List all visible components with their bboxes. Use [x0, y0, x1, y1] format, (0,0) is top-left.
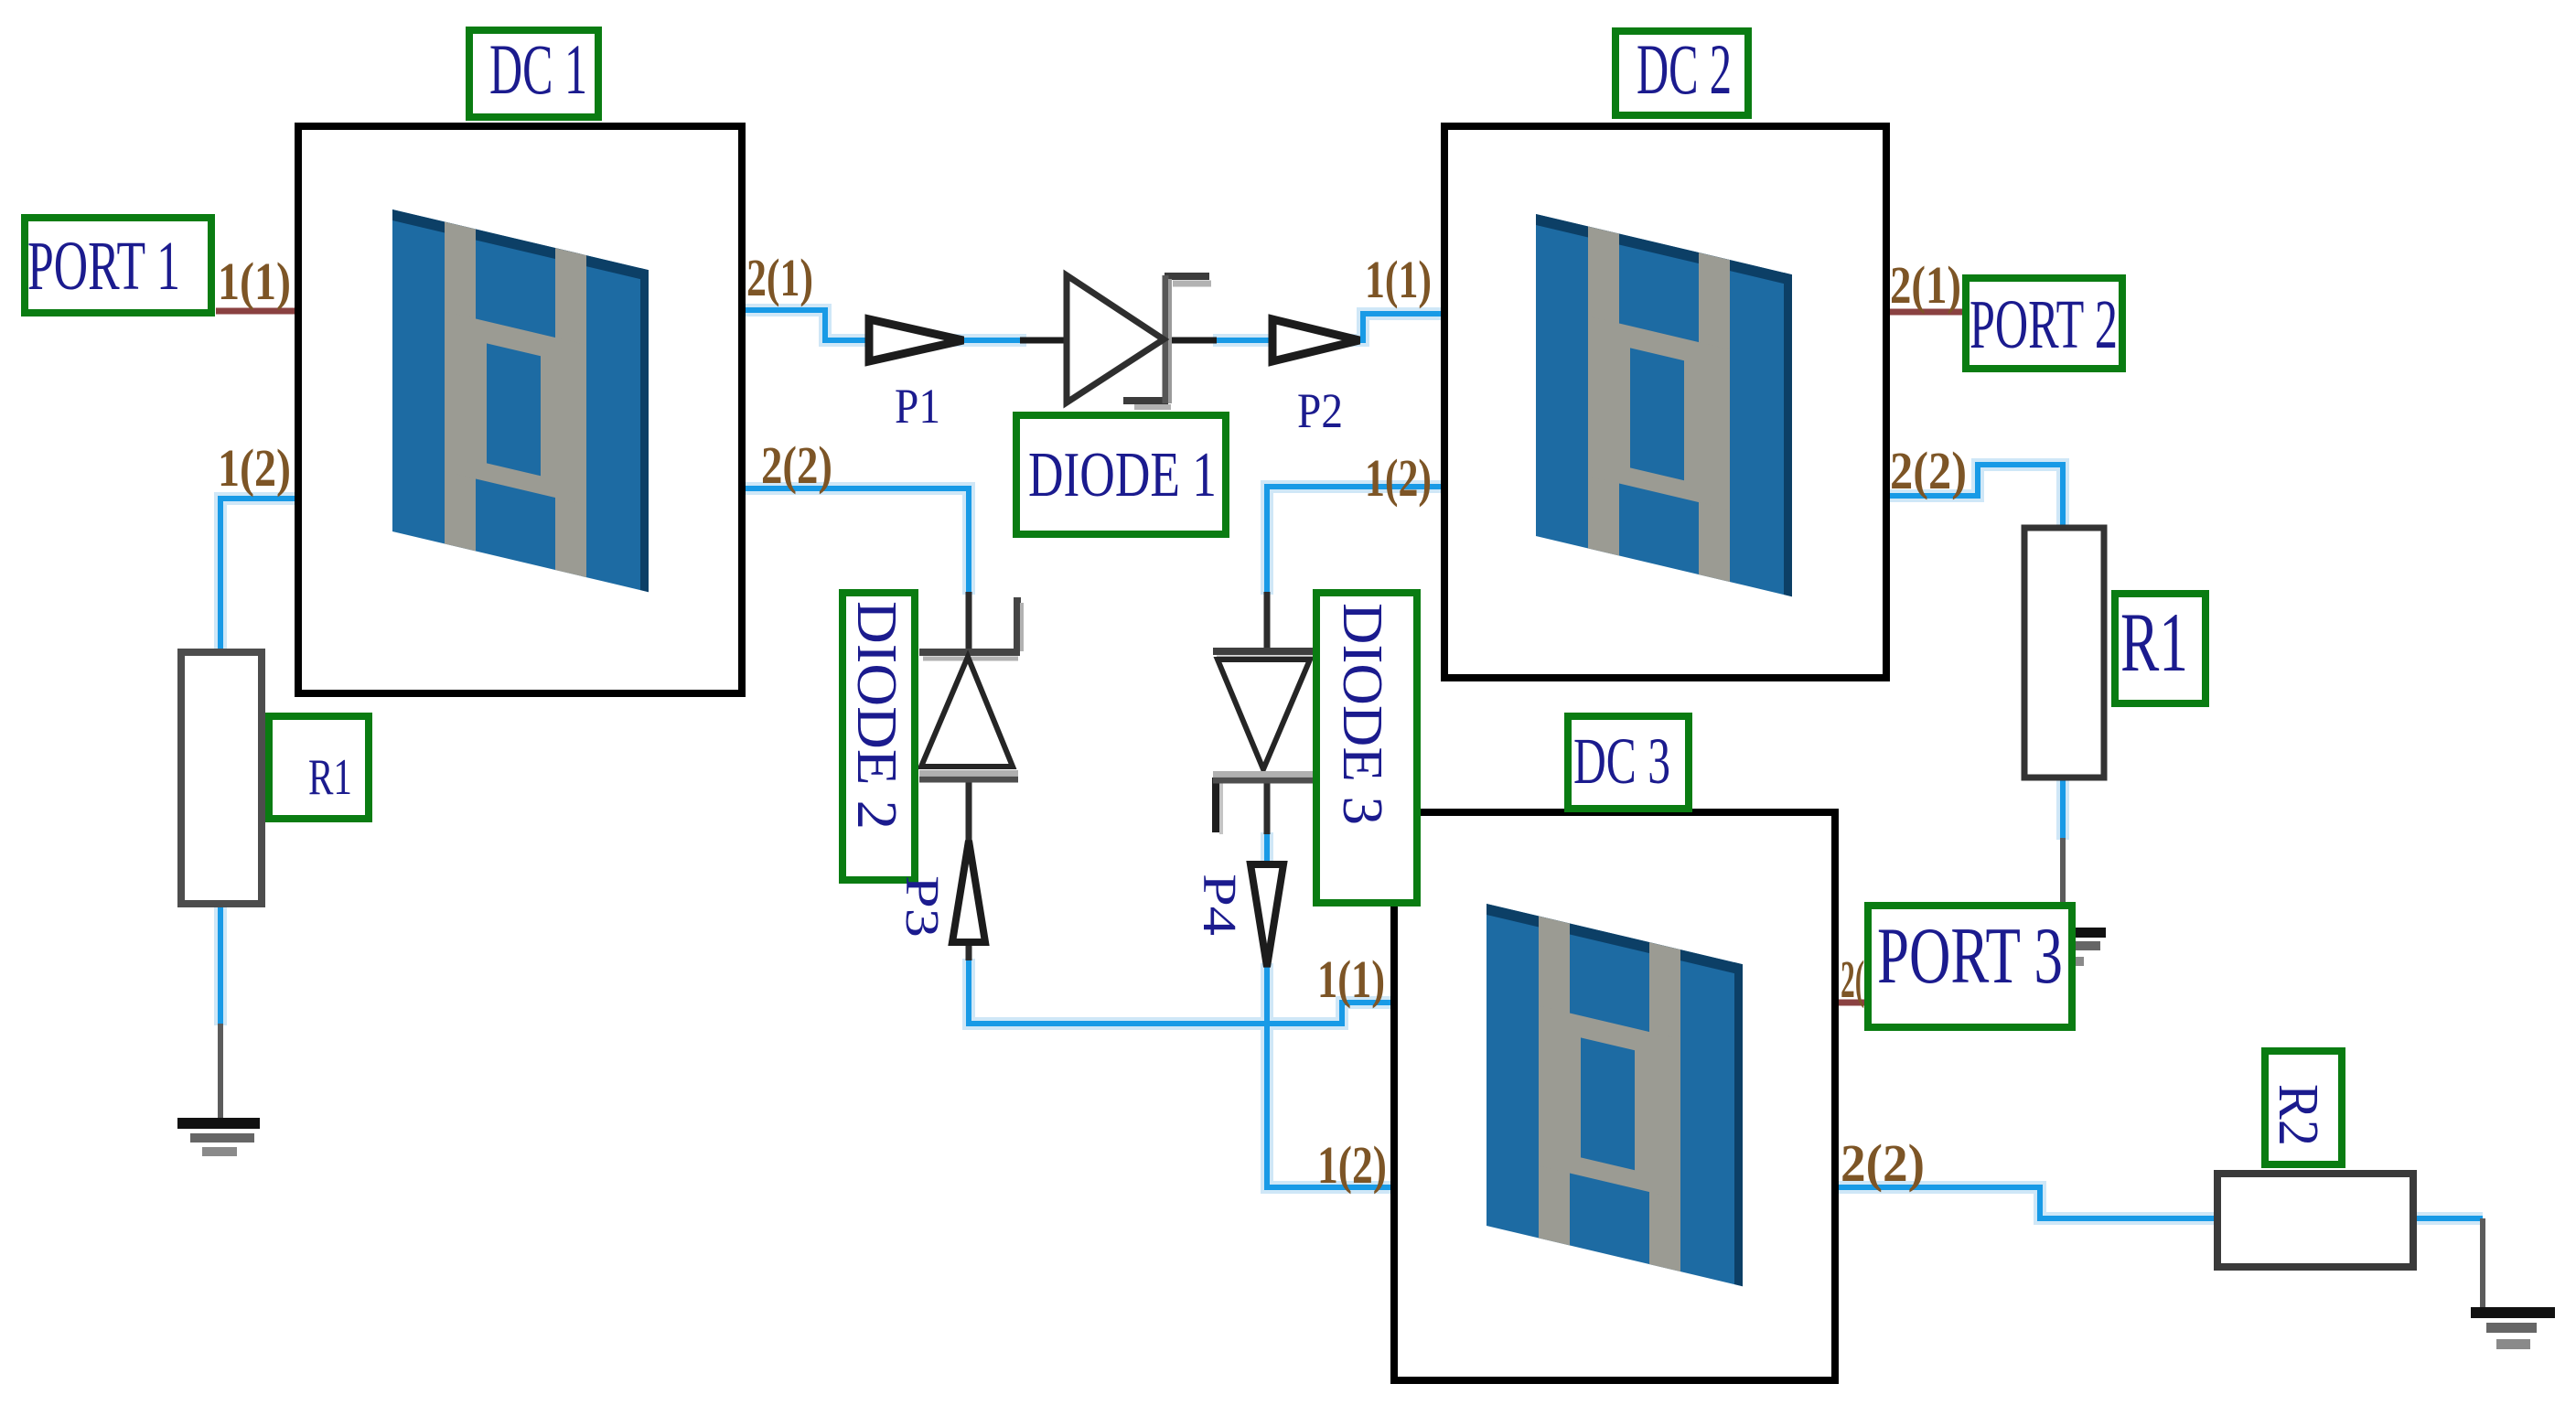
svg-text:PORT 1: PORT 1 [27, 228, 180, 305]
svg-text:DIODE 3: DIODE 3 [1331, 603, 1393, 825]
svg-text:P4: P4 [1193, 874, 1245, 936]
svg-text:R2: R2 [2267, 1084, 2329, 1146]
svg-text:PORT 2: PORT 2 [1970, 286, 2118, 363]
svg-text:DC 3: DC 3 [1573, 724, 1670, 798]
svg-text:R1: R1 [2120, 595, 2188, 689]
svg-text:1(2): 1(2) [218, 438, 291, 498]
svg-text:2(1): 2(1) [746, 248, 813, 307]
svg-text:P3: P3 [896, 875, 948, 938]
svg-text:DC 1: DC 1 [489, 29, 587, 109]
svg-text:DC 2: DC 2 [1637, 29, 1732, 109]
svg-text:R1: R1 [308, 749, 352, 806]
svg-text:1(1): 1(1) [218, 252, 291, 311]
svg-text:DIODE 1: DIODE 1 [1028, 440, 1217, 510]
svg-text:1(1): 1(1) [1317, 949, 1385, 1009]
svg-text:P2: P2 [1297, 383, 1343, 438]
svg-text:P1: P1 [895, 379, 940, 434]
svg-text:2(2): 2(2) [1841, 1133, 1925, 1193]
svg-text:PORT 3: PORT 3 [1877, 912, 2063, 1001]
svg-text:1(1): 1(1) [1365, 250, 1432, 309]
svg-text:2(2): 2(2) [1890, 441, 1967, 500]
svg-text:DIODE 2: DIODE 2 [845, 601, 907, 830]
svg-text:1(2): 1(2) [1365, 448, 1432, 508]
svg-text:1(2): 1(2) [1317, 1135, 1387, 1195]
svg-text:2(2): 2(2) [761, 435, 832, 495]
svg-text:2(1): 2(1) [1890, 255, 1961, 315]
